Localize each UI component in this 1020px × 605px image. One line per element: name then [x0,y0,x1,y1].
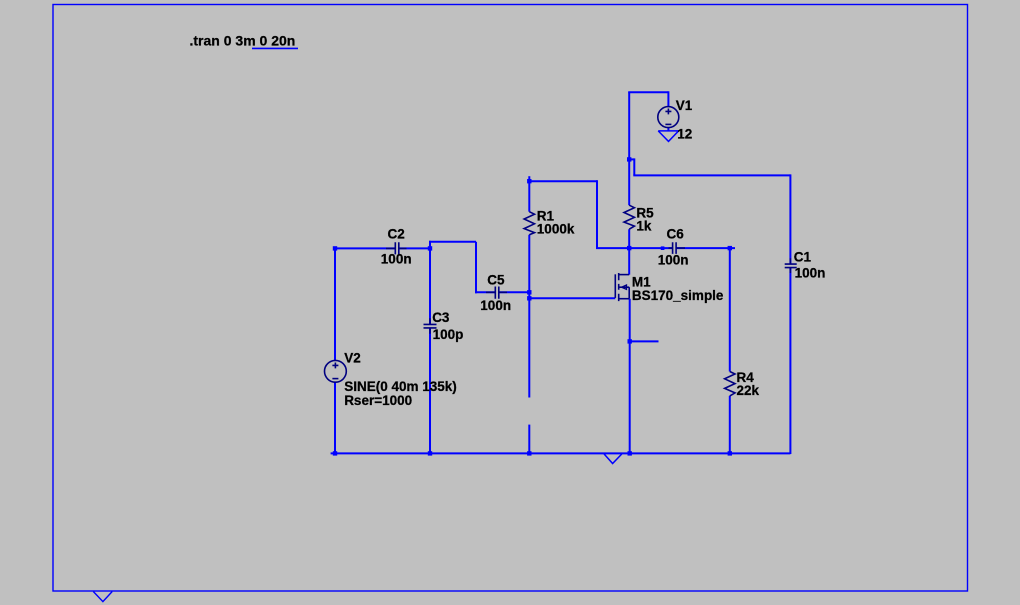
voltage source V2 circle [325,360,347,382]
wire R1 bottom column [528,235,530,398]
svg-text:BS170_simple: BS170_simple [632,288,724,303]
wire mid column lower segment [528,425,530,454]
wire V1 drop to circle [667,91,669,106]
wire R5 column [628,159,630,205]
svg-text:1000k: 1000k [537,222,575,237]
capacitor C3 plates [424,324,437,328]
node dot rail mid [527,451,531,455]
wire C3 column upper [429,241,431,324]
wire R4 top column [729,248,731,371]
border ground notch [93,592,112,602]
node dot source stub [628,339,632,343]
transistor M1 gate bar [614,274,616,298]
V1 minus sign [665,123,671,125]
wire R1 top horizontal [529,180,597,182]
resistor R1 [524,212,534,235]
svg-text:100n: 100n [381,252,412,267]
node dot C5 right [527,290,531,294]
svg-text:C2: C2 [388,227,405,242]
directive underline [252,47,298,49]
capacitor C6 plates [673,242,677,254]
svg-text:100n: 100n [658,253,689,268]
resistor R5 [624,205,634,229]
node dot C2 left corner [333,246,337,250]
svg-text:100n: 100n [795,266,826,281]
svg-text:V1: V1 [676,98,693,113]
transistor M1 bulk-source tie [628,287,630,299]
wire ground rail bottom [331,452,791,454]
node dot R5 bottom junction [627,246,631,250]
transistor M1 source stub [619,298,630,300]
wire C5 drop [475,242,477,293]
V2 plus sign [332,363,338,369]
svg-text:C6: C6 [667,227,685,242]
node dot V1 branch [627,157,631,161]
wire source stub right [630,340,659,342]
wire C1 column lower [789,268,791,454]
wire R1 stub top [528,176,530,212]
wire C3 column lower [429,328,431,454]
V2 minus sign [332,378,338,380]
capacitor C1 leads [789,258,791,273]
wire vplus stub right [629,158,634,160]
wire R5 bottom [628,229,630,248]
node dot rail C3 [428,451,432,455]
wire top rail to C1 [633,174,790,176]
node dot C6 right corner [728,246,732,250]
V1 plus sign [665,109,671,115]
wire V2 top column [334,247,336,360]
ground symbol bottom rail [604,454,622,464]
capacitor C6 leads [669,247,686,249]
transistor M1 channel segments [618,273,620,301]
node dot rail R4 [728,451,732,455]
wire R1 top drop [596,180,598,248]
node dot C6 left anchor [661,246,665,250]
svg-text:Rser=1000: Rser=1000 [344,393,412,408]
wire C1 column upper [789,174,791,263]
svg-text:12: 12 [677,126,692,141]
svg-text:C5: C5 [487,273,505,288]
transistor M1 bulk stub [619,286,630,288]
wire C5 right [499,291,530,293]
voltage source V1 circle [658,107,679,128]
svg-text:100p: 100p [433,327,464,342]
svg-text:22k: 22k [737,383,760,398]
wire C6 right [676,247,735,249]
capacitor C5 leads [486,291,507,293]
node dot gate branch [527,296,531,300]
node dot C2 right junction [428,246,432,250]
svg-text:100n: 100n [480,298,511,313]
wire vplus drop [633,158,635,175]
node dot rail V2 [333,451,337,455]
capacitor C1 plates [785,264,797,268]
svg-text:SINE(0 40m 135k): SINE(0 40m 135k) [344,379,457,394]
node dot R1 top [527,179,531,183]
svg-text:.tran 0 3m 0 20n: .tran 0 3m 0 20n [190,32,296,48]
transistor M1 bulk arrowhead [622,285,627,289]
wire C6 left [629,247,672,249]
wire V1 circle to ground [667,128,669,131]
transistor M1 drain stub [619,274,630,276]
wire to R5 junction [596,247,629,249]
wire R4 bottom [729,396,731,454]
svg-text:V2: V2 [344,350,361,365]
capacitor C2 leads [386,247,407,249]
wire M1 source down [629,299,631,454]
ground symbol V1 [658,131,678,142]
wire V1 top horizontal [628,91,668,93]
wire C2 right [399,247,430,249]
svg-text:1k: 1k [636,219,652,234]
wire V1 up [628,92,630,159]
node dot rail M1 [628,451,632,455]
svg-text:C3: C3 [432,310,450,325]
capacitor C5 plates [495,287,499,299]
wire C2 to C5 horizontal [429,241,476,243]
wire M1 drain [628,248,630,275]
wire C5 left [475,291,495,293]
resistor R4 [725,372,735,396]
capacitor C3 leads [429,318,431,334]
wire gate [529,297,615,299]
svg-text:C1: C1 [794,250,812,265]
wire C2 left [335,247,395,249]
capacitor C2 plates [395,242,399,254]
wire V2 bottom column [334,382,336,454]
